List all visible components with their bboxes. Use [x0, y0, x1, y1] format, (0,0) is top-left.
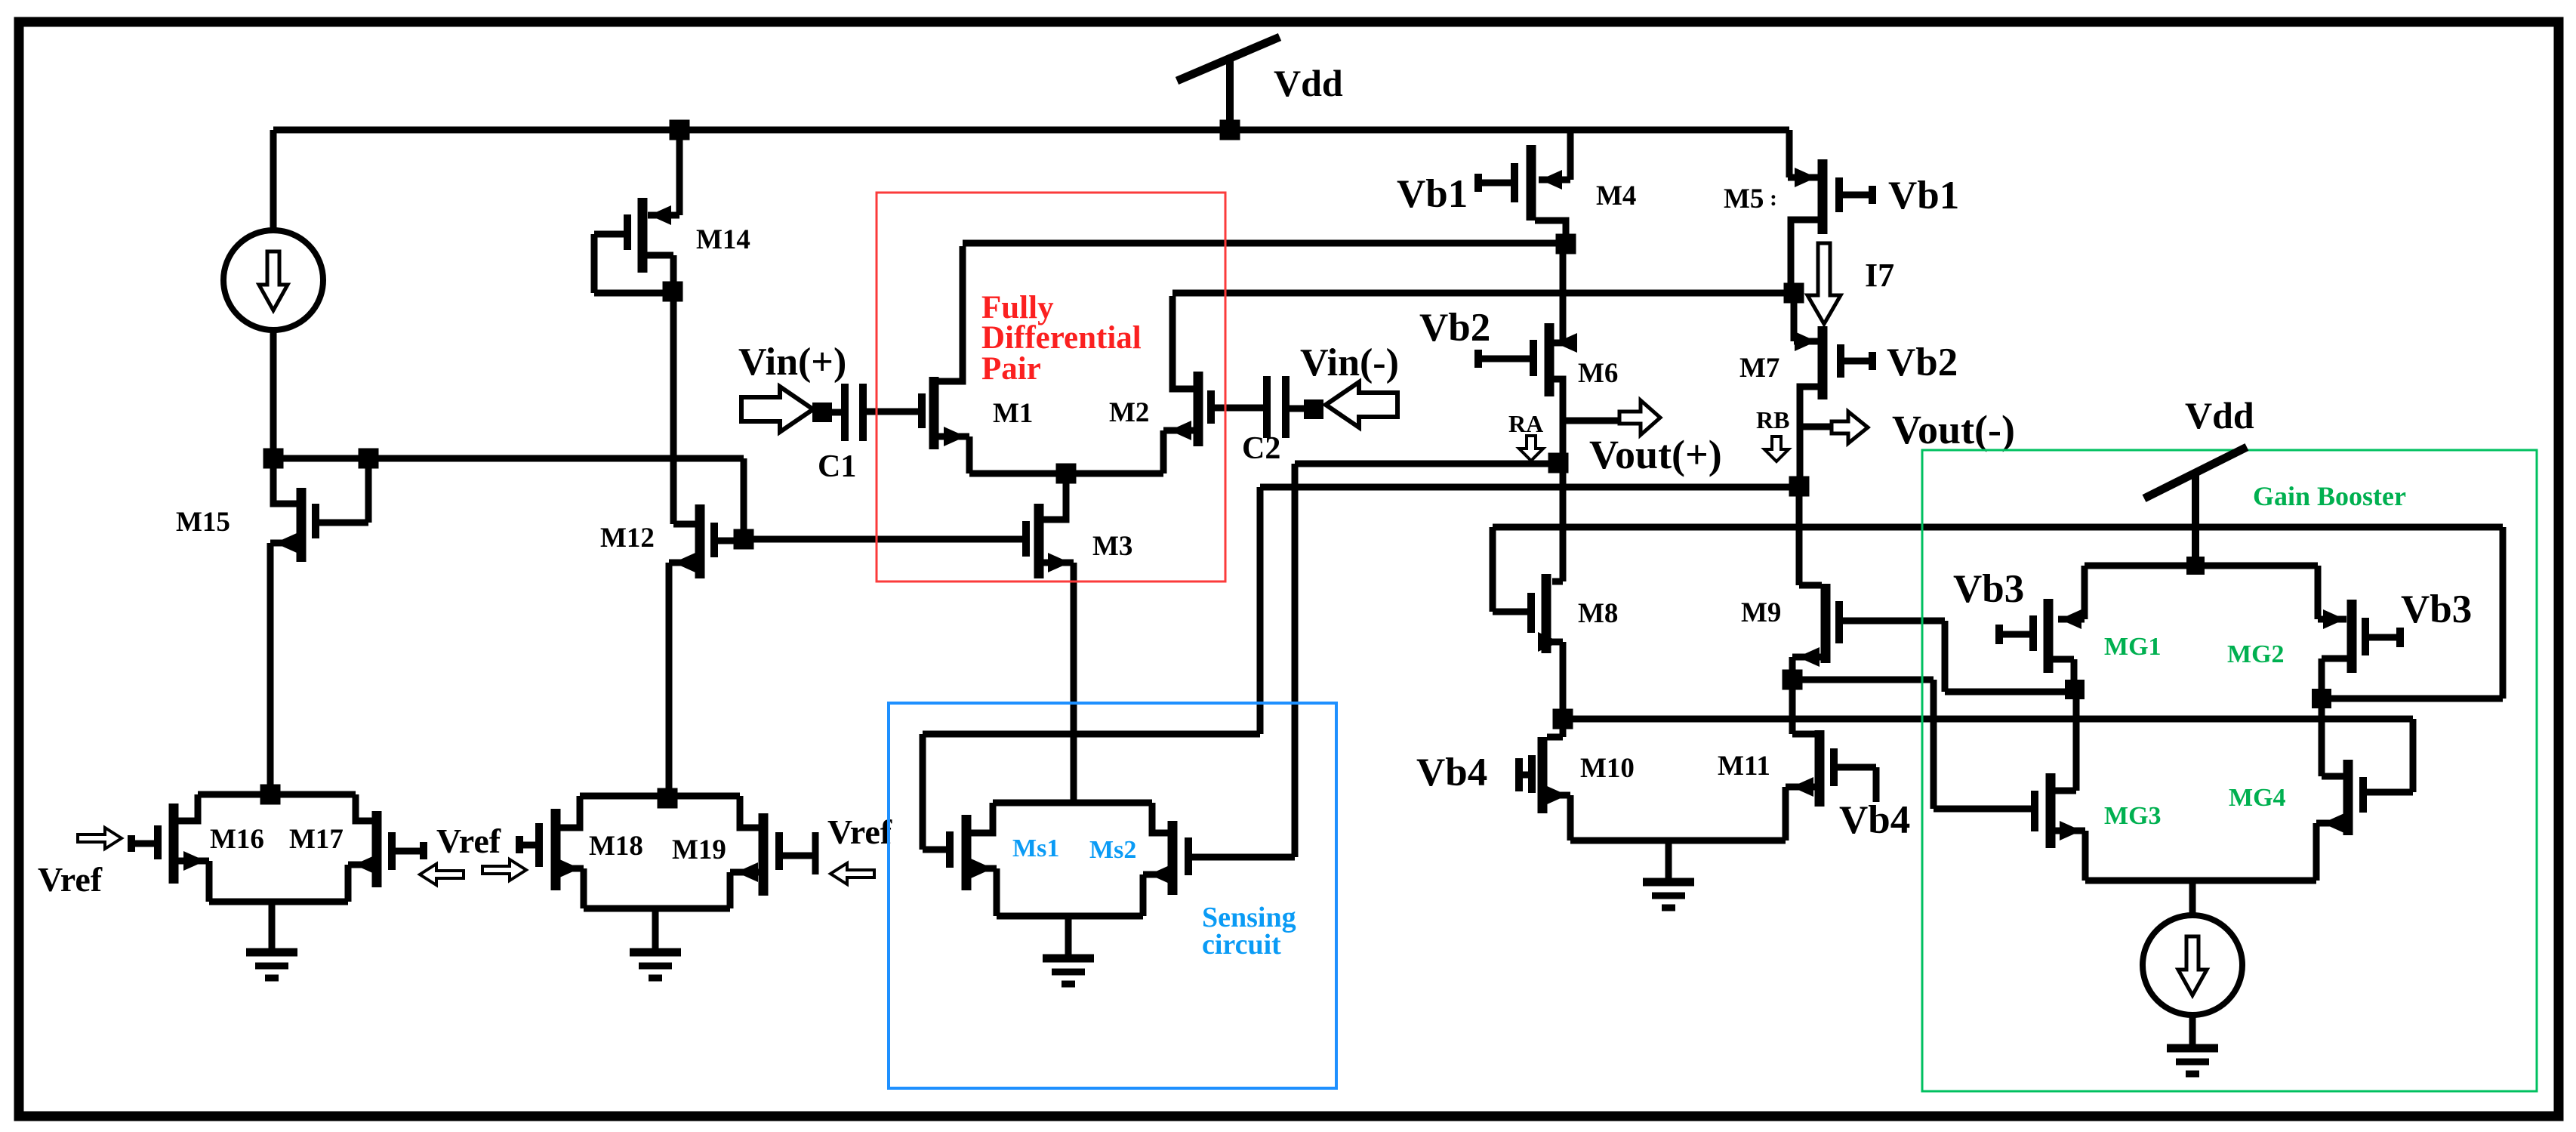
label C1 [818, 449, 856, 484]
wire Vout- lead [1800, 424, 1833, 430]
label M3 [1092, 531, 1132, 562]
label M15 [176, 507, 230, 538]
svg-text:Vb4: Vb4 [1416, 751, 1487, 794]
wire Vout+ lead [1563, 418, 1621, 424]
wire RB to M9 [1796, 489, 1803, 585]
node RB junction [1789, 477, 1810, 497]
label Vref left [38, 860, 103, 899]
node M14 rail junction [670, 120, 690, 140]
wire M5 to M7 [1791, 296, 1798, 341]
svg-text:Vref: Vref [38, 860, 103, 899]
transistor M16 [128, 794, 213, 902]
label Differential [981, 320, 1142, 356]
wire M9 gate to booster [1942, 621, 2069, 696]
wire M12 source down [666, 563, 673, 798]
svg-text:M10: M10 [1580, 753, 1635, 784]
wire M14 to M12 [670, 291, 677, 524]
node bias A [263, 449, 284, 469]
node M18 M19 drain junction [658, 788, 678, 809]
arrow Vref mid-left [420, 864, 464, 885]
svg-text:M8: M8 [1578, 598, 1618, 629]
svg-text:Vb2: Vb2 [1419, 306, 1490, 350]
transistor M11 [1783, 730, 1880, 841]
label Vout(-) [1892, 407, 2015, 452]
wire M7 source to RB [1797, 387, 1804, 486]
label Gain Booster [2253, 481, 2406, 511]
transistor M3 [1022, 473, 1074, 578]
output arrow Vout(-) [1832, 412, 1868, 443]
label M12 [600, 523, 655, 554]
label M2 [1109, 397, 1149, 428]
label C2 [1242, 431, 1280, 466]
svg-text:Vb1: Vb1 [1397, 172, 1468, 216]
label M9 [1741, 597, 1781, 628]
ground G5 [2167, 1044, 2218, 1078]
label Vref right [827, 813, 892, 851]
label MG2 [2227, 640, 2285, 668]
svg-text:Vdd: Vdd [2185, 394, 2254, 436]
transistor M5 [1788, 130, 1876, 290]
label Vb3 right [2401, 588, 2472, 631]
node M14 bottom junction [663, 282, 683, 302]
node Vdd2 junction [2186, 557, 2205, 575]
power Vdd2 symbol [2144, 447, 2247, 566]
label M17 [289, 824, 344, 855]
ground G4 [1043, 955, 1094, 988]
transistor M1 [918, 246, 973, 473]
svg-text:RB: RB [1756, 406, 1789, 433]
label M11 [1718, 751, 1770, 782]
wire CS1 to rail [270, 130, 277, 230]
ground G3 [1643, 878, 1694, 911]
label Vb2 right [1887, 341, 1958, 384]
capacitor C2 [1263, 376, 1305, 438]
label MG1 [2104, 633, 2162, 661]
label Vb4 right [1839, 798, 1910, 842]
node Vdd tap junction [1220, 120, 1240, 140]
svg-text:Pair: Pair [981, 351, 1041, 387]
wire M15 source down [267, 543, 274, 794]
input arrow Vin(+) [741, 387, 813, 432]
wire MG source rail [2085, 878, 2316, 884]
svg-text:M3: M3 [1092, 531, 1132, 562]
arrow Vref right [830, 863, 874, 884]
svg-text:M7: M7 [1739, 353, 1779, 384]
input arrow Vref left [78, 828, 122, 849]
label Vin(-) [1300, 341, 1399, 384]
wire to ground G1 [269, 902, 276, 952]
arrow Vref mid-right [482, 859, 526, 881]
wire Vdd top rail [273, 127, 1789, 134]
input arrow Vin(-) [1326, 382, 1397, 427]
label Vb2 left [1419, 306, 1490, 350]
svg-text:Vb3: Vb3 [2401, 588, 2472, 631]
label M18 [589, 831, 643, 862]
transistor M12 [669, 504, 744, 578]
svg-text:M4: M4 [1596, 180, 1636, 211]
label MG4 [2229, 784, 2286, 812]
label M6 [1578, 358, 1618, 389]
wire M8M10 node line [1563, 716, 2417, 796]
wire RB feedback [920, 484, 1801, 850]
svg-text:M6: M6 [1578, 358, 1618, 389]
node Vin+ terminal [812, 403, 832, 422]
svg-text:Gain Booster: Gain Booster [2253, 481, 2406, 511]
wire bias line [273, 455, 744, 462]
label Pair [981, 351, 1041, 387]
svg-text:M1: M1 [993, 398, 1033, 429]
label M10 [1580, 753, 1635, 784]
label Vb1 left [1397, 172, 1468, 216]
ground G1 [246, 948, 297, 982]
wire M9 to M11 [1789, 683, 1816, 738]
transistor M9 [1789, 582, 1946, 680]
label Vdd2 [2185, 394, 2254, 436]
wire to ground G2 [652, 908, 659, 952]
svg-text:M15: M15 [176, 507, 230, 538]
current source I2 [2143, 915, 2242, 1015]
label RA [1508, 410, 1543, 437]
region box Gain Booster [1922, 450, 2537, 1091]
current arrow I7 [1807, 243, 1841, 324]
svg-text:Ms2: Ms2 [1089, 836, 1136, 864]
label M7 [1739, 353, 1779, 384]
svg-text:RA: RA [1508, 410, 1543, 437]
label Vin(+) [738, 341, 846, 384]
svg-text:MG2: MG2 [2227, 640, 2285, 668]
wire Ms drain rail [993, 800, 1152, 807]
svg-text:Vref: Vref [436, 822, 501, 860]
transistor M10 [1515, 737, 1574, 841]
wire Ms source rail [997, 913, 1143, 920]
transistor MG4 [2313, 760, 2414, 881]
label Fully [981, 290, 1054, 325]
svg-text:MG1: MG1 [2104, 633, 2162, 661]
current source I1 [223, 230, 323, 330]
label MG3 [2104, 802, 2162, 830]
ground G2 [630, 948, 681, 982]
transistor M2 [1160, 296, 1265, 473]
node arrow RB [1764, 436, 1789, 461]
svg-text:M14: M14 [696, 224, 750, 255]
wire M6 source to RA [1560, 379, 1567, 463]
wire M8 gate line [1493, 524, 2503, 531]
node M5 source junction [1784, 283, 1804, 304]
transistor M18 [516, 796, 587, 908]
transistor M17 [345, 794, 428, 902]
svg-text:Vdd: Vdd [1274, 62, 1343, 104]
wire to ground G4 [1065, 916, 1072, 958]
svg-text:MG4: MG4 [2229, 784, 2286, 812]
capacitor C1 [830, 384, 918, 441]
svg-text:Ms1: Ms1 [1012, 834, 1059, 862]
svg-text:MG3: MG3 [2104, 802, 2162, 830]
transistor M8 [1490, 527, 1567, 719]
wire MG1 source down [2073, 699, 2080, 791]
wire M16M17 drain rail [198, 791, 356, 798]
svg-text:M11: M11 [1718, 751, 1770, 782]
label M1 [993, 398, 1033, 429]
wire MG2 source to M8 gate line [2331, 527, 2507, 702]
transistor M19 [727, 796, 819, 908]
label Ms1 [1012, 834, 1059, 862]
wire M18M19 drain rail [580, 793, 740, 800]
svg-text:Vout(-): Vout(-) [1892, 407, 2015, 452]
node arrow RA [1519, 436, 1543, 461]
label M16 [210, 824, 264, 855]
label M4 [1596, 180, 1636, 211]
region box Sensing circuit [889, 703, 1336, 1088]
label circuit [1202, 929, 1281, 961]
label Sensing [1202, 902, 1296, 933]
wire bias riser to M12 gate [741, 458, 747, 539]
node MG2 source junction [2312, 689, 2331, 708]
svg-text:Vout(+): Vout(+) [1589, 432, 1722, 477]
wire M16M17 source rail [209, 899, 348, 905]
node M9 source junction [1783, 670, 1803, 690]
svg-text:Vb1: Vb1 [1888, 174, 1959, 217]
node bias B [359, 449, 379, 469]
svg-text:Vb4: Vb4 [1839, 798, 1910, 842]
label I7 [1865, 257, 1894, 294]
wire M1 drain line [963, 240, 1566, 247]
label Vb1 right [1888, 174, 1959, 217]
wire M10M11 source rail [1570, 837, 1786, 844]
svg-text:M12: M12 [600, 523, 655, 554]
wire to ground G3 [1665, 841, 1672, 882]
svg-text:Differential: Differential [981, 320, 1142, 356]
transistor Ms2 [1140, 803, 1296, 916]
node M12 gate junction [734, 529, 754, 550]
wire M2 drain line [1172, 290, 1791, 297]
label Vb3 left [1953, 567, 2024, 611]
transistor M7 [1794, 326, 1876, 399]
label M14 [696, 224, 750, 255]
wire M9 source to MG3 gate [1792, 677, 2031, 813]
svg-text:C1: C1 [818, 449, 856, 484]
node MG1 source junction [2065, 680, 2085, 699]
transistor MG2 [2315, 566, 2405, 689]
wire to CS2 [2189, 881, 2196, 915]
svg-text:M17: M17 [289, 824, 344, 855]
region box Fully Differential Pair [877, 193, 1225, 581]
wire MG drain rail [2085, 563, 2318, 569]
label Vout(+) [1589, 432, 1722, 477]
node tail junction [1056, 464, 1077, 484]
transistor M6 [1474, 323, 1577, 396]
node M16 M17 drain junction [260, 785, 281, 805]
svg-text::: : [1770, 186, 1777, 211]
wire MG2 source down [2319, 699, 2325, 776]
wire M3 source down [1071, 563, 1077, 803]
wire RA feedback [1292, 461, 1559, 858]
transistor Ms1 [923, 803, 1000, 916]
node M4 source junction [1556, 234, 1576, 254]
svg-text:M19: M19 [672, 834, 726, 865]
transistor MG1 [1995, 566, 2088, 682]
label M19 [672, 834, 726, 865]
wire M18M19 source rail [584, 905, 730, 912]
svg-text:I7: I7 [1865, 257, 1894, 294]
label Vref mid [436, 822, 501, 860]
svg-text:M5: M5 [1724, 184, 1764, 214]
wire M8 to M10 [1547, 719, 1567, 741]
output arrow Vout(+) [1619, 400, 1660, 435]
svg-text:Vref: Vref [827, 813, 892, 851]
label Vdd [1274, 62, 1343, 104]
wire M1M2 source rail [969, 470, 1163, 477]
svg-text:M18: M18 [589, 831, 643, 862]
transistor M14 [591, 198, 680, 297]
svg-text:M9: M9 [1741, 597, 1781, 628]
svg-text:C2: C2 [1242, 431, 1280, 466]
svg-text:Vb2: Vb2 [1887, 341, 1958, 384]
transistor M4 [1474, 130, 1574, 240]
transistor MG3 [2031, 773, 2089, 881]
svg-text:Vb3: Vb3 [1953, 567, 2024, 611]
wire RA to M8 [1560, 463, 1567, 581]
wire CS1 bottom [270, 330, 277, 461]
label M8 [1578, 598, 1618, 629]
node RA junction [1548, 453, 1569, 473]
wire M14 to rail [676, 130, 683, 215]
label Vb4 left [1416, 751, 1487, 794]
node M8 source junction [1553, 709, 1573, 729]
svg-text:Vin(+): Vin(+) [738, 341, 846, 384]
transistor M15 [270, 458, 372, 562]
wire M4 to M6 [1560, 248, 1567, 343]
node Vin- terminal [1304, 399, 1323, 419]
label Ms2 [1089, 836, 1136, 864]
wire M3 gate line [744, 536, 1026, 543]
label M5 [1724, 184, 1777, 214]
svg-text:Vin(-): Vin(-) [1300, 341, 1399, 384]
svg-text:M16: M16 [210, 824, 264, 855]
svg-text:M2: M2 [1109, 397, 1149, 428]
label RB [1756, 406, 1789, 433]
power Vdd symbol [1177, 37, 1280, 130]
wire CS2 to ground [2189, 1015, 2196, 1048]
svg-text:circuit: circuit [1202, 929, 1281, 961]
